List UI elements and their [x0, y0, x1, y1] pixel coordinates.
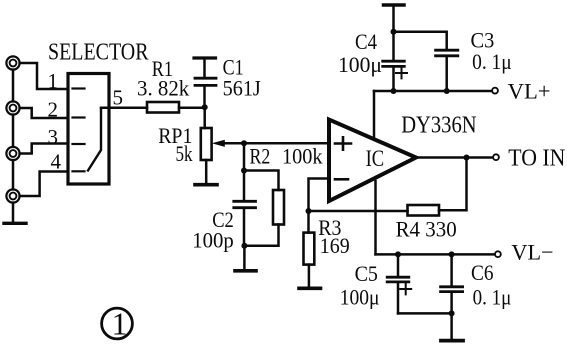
wire node B down	[243, 143, 246, 170]
wire node H to ground	[450, 313, 453, 339]
wire wiper to op-amp +input	[222, 142, 329, 145]
selector contact 2	[73, 116, 85, 118]
wire jack4 to selector pin4	[20, 172, 68, 197]
op-amp minus input symbol	[335, 178, 348, 181]
wire node G to C4	[392, 32, 395, 60]
svg-text:VL+: VL+	[508, 79, 551, 104]
selector wiper arm	[88, 108, 101, 171]
wire node E to R3	[307, 211, 310, 233]
wire bottom bus	[398, 312, 452, 315]
wire chassis to node G	[392, 5, 395, 32]
wire R2 to node D	[244, 225, 279, 246]
wire rail to C5	[397, 254, 400, 276]
ground RP1	[195, 183, 217, 187]
jack J4	[6, 189, 19, 202]
ground jack chain	[4, 222, 26, 225]
resistor R1	[147, 102, 179, 113]
wire R3 to ground	[308, 265, 311, 287]
svg-text:IC: IC	[366, 146, 385, 171]
selector box S1	[68, 74, 109, 185]
node B junction	[241, 140, 247, 146]
jack J1	[6, 56, 19, 69]
junction C4 rail	[391, 88, 397, 94]
junction C3 rail	[444, 88, 450, 94]
svg-text:2: 2	[48, 98, 59, 122]
wire R4 to output node	[439, 158, 467, 211]
wire V- pin	[374, 181, 377, 254]
chassis bar top	[384, 3, 405, 7]
wire R1 to node A	[179, 107, 205, 110]
wire RP1 to ground	[205, 160, 208, 183]
op-amp plus input symbol	[335, 137, 351, 149]
wire C6 to bottom	[450, 293, 453, 314]
capacitor C2	[234, 201, 256, 207]
svg-text:4: 4	[51, 149, 62, 173]
wire VL+ rail	[374, 90, 492, 93]
svg-text:100k: 100k	[282, 144, 323, 169]
wire -input	[309, 179, 330, 212]
junction C6 rail	[449, 251, 455, 257]
svg-text:TO IN: TO IN	[508, 145, 565, 171]
capacitor C5	[387, 277, 409, 282]
svg-text:C5: C5	[355, 261, 378, 286]
selector contact 1	[73, 87, 85, 89]
wire node C to R2	[244, 171, 279, 191]
wire C3 to VL+ rail	[445, 57, 448, 91]
wire C2 to node D	[243, 209, 246, 246]
resistor R2	[273, 190, 284, 225]
wire C1 to node A	[203, 87, 206, 108]
svg-text:5: 5	[113, 86, 124, 110]
svg-text:1: 1	[112, 306, 128, 342]
op-amp U1	[329, 120, 416, 202]
terminal VL-	[495, 251, 501, 257]
svg-text:VL−: VL−	[511, 239, 553, 264]
wire C5 to bottom	[397, 283, 400, 313]
wire C4 to VL+ rail	[392, 68, 395, 92]
wire node C to C2	[243, 171, 246, 201]
ground R3	[299, 286, 321, 290]
jack J3	[6, 147, 19, 160]
wire node D to ground	[243, 246, 246, 270]
wire rail to C6	[450, 254, 453, 285]
node F junction	[464, 155, 470, 161]
terminal VL+	[492, 88, 498, 94]
wire op-amp output	[415, 156, 492, 159]
resistor R4	[408, 205, 440, 216]
wire pin5 to R1	[101, 107, 147, 110]
figure number circle	[102, 308, 133, 339]
svg-text:1: 1	[48, 69, 59, 93]
node C junction	[241, 168, 247, 174]
capacitor C4	[383, 61, 405, 66]
wire chassis to C1	[203, 58, 206, 77]
selector contact 4	[73, 170, 85, 172]
terminal TO IN	[493, 154, 499, 160]
svg-text:SELECTOR: SELECTOR	[48, 40, 149, 66]
ground C2	[235, 269, 256, 273]
svg-text:100μ: 100μ	[338, 52, 382, 77]
wire jack3 to selector pin3	[20, 144, 68, 154]
wire jack1 to selector pin1	[20, 63, 68, 89]
svg-text:3. 82k: 3. 82k	[137, 76, 189, 101]
node E junction	[306, 208, 312, 214]
chassis bar above C1	[194, 56, 216, 59]
node G junction	[391, 29, 397, 35]
svg-text:0. 1μ: 0. 1μ	[472, 49, 512, 74]
capacitor C1	[195, 78, 216, 85]
junction C5 rail	[395, 251, 401, 257]
svg-text:0. 1μ: 0. 1μ	[473, 284, 512, 309]
wire node E to R4	[309, 210, 408, 213]
selector contact 3	[73, 143, 85, 145]
C4 polarity plus	[396, 68, 407, 79]
wire V+ pin	[373, 91, 376, 139]
svg-text:R4 330: R4 330	[396, 217, 457, 242]
C5 polarity plus	[400, 284, 411, 295]
RP1 wiper arrow	[212, 140, 225, 147]
svg-text:R2: R2	[250, 144, 271, 169]
svg-text:561J: 561J	[223, 76, 262, 101]
svg-text:169: 169	[320, 233, 350, 258]
svg-text:3: 3	[48, 125, 59, 149]
capacitor C3	[436, 50, 458, 56]
svg-text:C6: C6	[471, 260, 494, 285]
capacitor C6	[441, 287, 463, 292]
svg-text:C4: C4	[355, 29, 377, 54]
svg-text:5k: 5k	[176, 141, 193, 166]
jack J2	[6, 101, 19, 114]
svg-text:100p: 100p	[192, 227, 234, 252]
svg-text:100μ: 100μ	[340, 284, 380, 309]
wire jack2 to selector pin2	[20, 108, 68, 118]
svg-text:DY336N: DY336N	[401, 113, 476, 139]
wire jack chain	[12, 70, 15, 221]
node D junction	[241, 243, 247, 249]
wire VL- rail	[376, 253, 495, 256]
node A junction	[202, 104, 208, 110]
resistor R3	[304, 233, 315, 265]
node H junction	[449, 310, 455, 316]
ground C6	[441, 339, 463, 343]
wire node A to RP1	[203, 107, 206, 128]
potentiometer RP1	[201, 128, 212, 160]
wire node G to C3	[394, 32, 447, 49]
